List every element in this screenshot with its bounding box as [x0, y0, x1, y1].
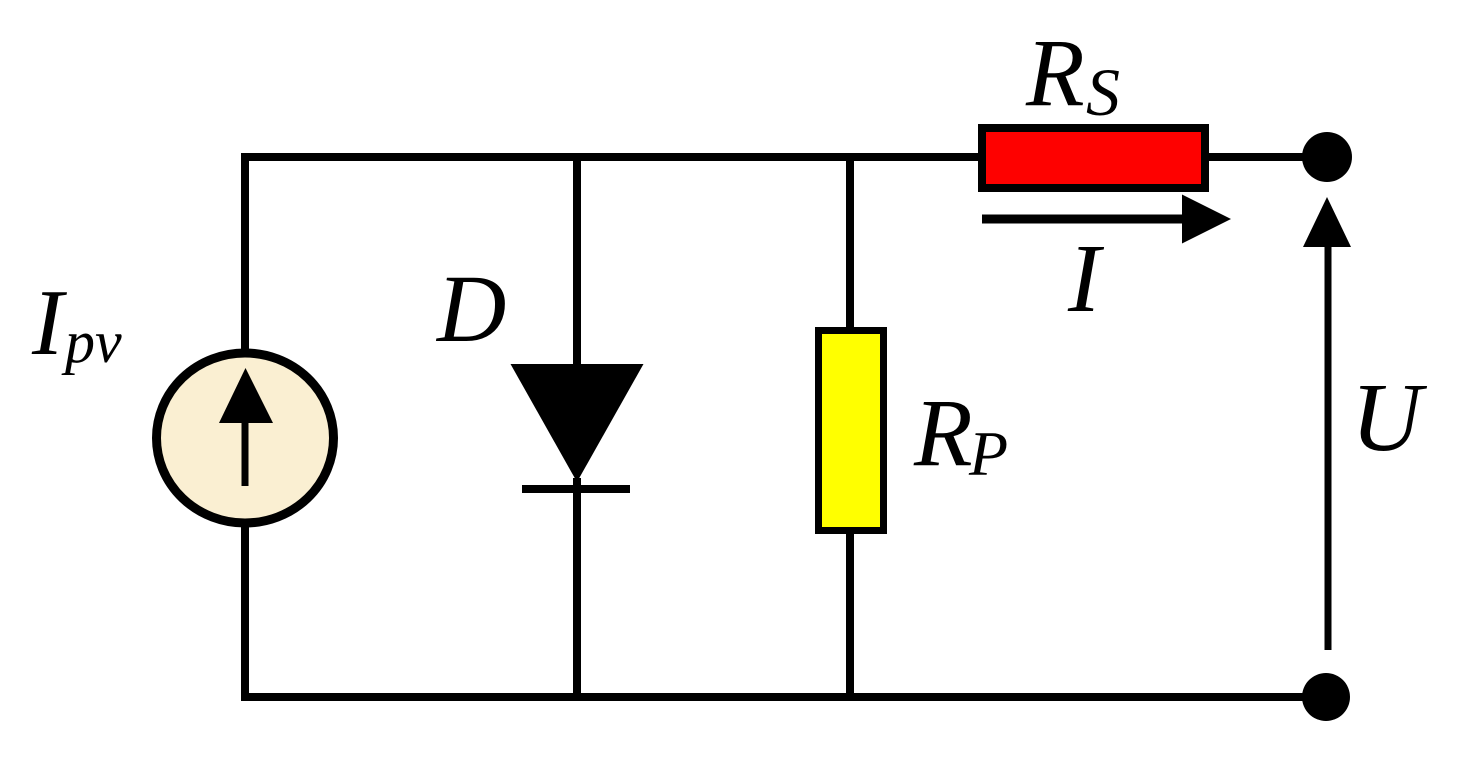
label Rp	[913, 379, 1008, 489]
resistor Rp	[819, 331, 884, 531]
current source Ipv	[157, 353, 334, 523]
wire: Rp branch upper	[846, 153, 854, 332]
wire: top bus from left corner to Rs	[245, 153, 981, 161]
node: positive terminal	[1302, 132, 1352, 182]
svg-text:I: I	[31, 271, 67, 375]
diode D	[511, 364, 644, 489]
current arrow I	[982, 195, 1231, 244]
label D	[435, 255, 506, 362]
svg-text:R: R	[1025, 19, 1085, 126]
resistor Rs	[982, 128, 1205, 188]
svg-text:P: P	[968, 418, 1008, 489]
wire: bottom bus	[241, 693, 1326, 701]
label I	[1067, 225, 1105, 332]
wire: left vertical above current source	[241, 153, 249, 356]
wire: left vertical below current source	[241, 520, 249, 700]
svg-text:S: S	[1086, 54, 1120, 130]
wire: Rs to positive terminal	[1205, 153, 1327, 161]
svg-text:pv: pv	[61, 309, 122, 375]
wire: Rp branch lower	[846, 530, 854, 700]
label Ipv	[31, 271, 122, 375]
wire: diode branch lower	[573, 478, 581, 700]
svg-text:I: I	[1067, 225, 1105, 332]
label U	[1351, 364, 1428, 472]
voltage arrow U	[1303, 197, 1351, 650]
node: negative terminal	[1302, 673, 1350, 721]
label Rs	[1025, 19, 1120, 130]
svg-text:D: D	[435, 255, 506, 362]
svg-text:R: R	[913, 379, 973, 486]
svg-text:U: U	[1351, 364, 1428, 472]
wire: diode branch upper	[573, 153, 581, 372]
